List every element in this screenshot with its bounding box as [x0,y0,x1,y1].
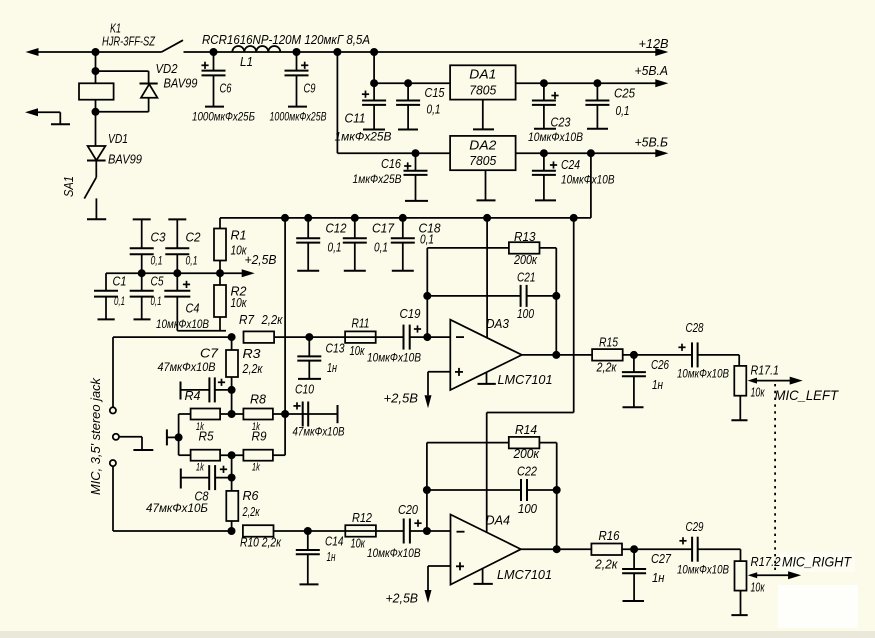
svg-text:1мкФх25В: 1мкФх25В [353,172,402,186]
svg-text:HJR-3FF-SZ: HJR-3FF-SZ [102,35,155,49]
svg-text:K1: K1 [110,22,121,36]
svg-text:DA3: DA3 [486,317,509,331]
svg-text:7805: 7805 [469,153,497,168]
svg-text:100: 100 [517,307,534,321]
svg-text:C25: C25 [614,87,635,101]
svg-text:1н: 1н [652,571,665,585]
svg-text:MIC_LEFT: MIC_LEFT [775,387,840,403]
svg-text:0,1: 0,1 [151,294,162,308]
svg-text:2,2к: 2,2к [596,361,618,375]
svg-text:1н: 1н [327,550,336,564]
svg-text:1k: 1k [196,462,204,474]
svg-text:100: 100 [518,502,537,516]
svg-text:C7: C7 [200,347,219,361]
svg-text:C15: C15 [425,86,445,100]
svg-text:10мкФх10В: 10мкФх10В [367,546,421,560]
svg-text:R11: R11 [352,317,370,331]
svg-text:C6: C6 [220,82,232,96]
svg-text:C23: C23 [551,116,571,130]
svg-text:10к: 10к [751,581,766,595]
svg-text:R17.2: R17.2 [751,555,781,569]
svg-text:1000мкФх25Б: 1000мкФх25Б [192,110,255,124]
svg-text:R1: R1 [231,229,247,243]
svg-text:200к: 200к [513,447,540,461]
svg-text:R12: R12 [352,511,372,525]
svg-text:C20: C20 [398,503,418,517]
svg-text:+12В: +12В [639,36,669,51]
svg-text:R4: R4 [185,389,201,403]
svg-text:47мкФх10В: 47мкФх10В [293,425,345,439]
svg-text:BAV99: BAV99 [108,153,142,167]
svg-text:10к: 10к [751,386,766,400]
svg-text:C12: C12 [326,222,347,236]
svg-text:C1: C1 [113,275,127,289]
svg-text:C11: C11 [345,112,366,126]
svg-text:0,1: 0,1 [374,241,388,255]
svg-text:10мкФх10В: 10мкФх10В [367,351,421,365]
svg-text:R8: R8 [250,393,266,407]
svg-text:R13: R13 [514,230,536,244]
svg-text:C21: C21 [517,271,536,285]
svg-text:R17.1: R17.1 [751,364,780,378]
svg-text:+2,5В: +2,5В [245,252,277,267]
svg-text:10мкФх10В: 10мкФх10В [156,317,209,331]
svg-text:VD2: VD2 [156,62,178,76]
svg-text:C9: C9 [304,82,316,96]
svg-text:SA1: SA1 [62,176,76,197]
svg-text:LMC7101: LMC7101 [498,372,553,387]
svg-text:DA4: DA4 [486,514,511,528]
svg-text:1000мкФх25В: 1000мкФх25В [270,110,327,124]
svg-text:C4: C4 [186,302,200,316]
svg-text:47мкФх10Б: 47мкФх10Б [146,501,208,515]
svg-text:10мкФх10В: 10мкФх10В [677,563,729,577]
svg-text:0,1: 0,1 [186,254,198,268]
svg-text:C26: C26 [651,358,669,372]
svg-text:R7: R7 [239,313,255,327]
svg-text:1k: 1k [252,462,260,474]
svg-text:DA1: DA1 [469,67,496,82]
svg-text:C14: C14 [325,535,344,549]
svg-text:DA2: DA2 [469,138,497,153]
svg-text:+5В.А: +5В.А [635,63,669,78]
svg-text:0,1: 0,1 [151,254,163,268]
svg-text:2,2к: 2,2к [242,505,261,519]
svg-text:R16: R16 [599,529,620,543]
svg-text:C19: C19 [400,307,421,321]
svg-text:C29: C29 [686,520,704,534]
svg-text:10мкФх10В: 10мкФх10В [677,367,729,381]
svg-text:2,2к: 2,2к [594,558,619,572]
svg-text:R5: R5 [199,430,214,444]
svg-text:C13: C13 [326,342,345,356]
svg-text:0,1: 0,1 [420,233,434,247]
svg-text:C24: C24 [561,158,580,172]
svg-text:200к: 200к [513,253,538,267]
svg-text:0,1: 0,1 [616,104,630,118]
svg-text:MIC_RIGHT: MIC_RIGHT [782,554,852,570]
svg-text:2,2к: 2,2к [261,313,284,327]
svg-text:C22: C22 [517,465,537,479]
svg-text:MIC, 3,5' stereo jack: MIC, 3,5' stereo jack [89,377,103,495]
svg-text:10мкФх10В: 10мкФх10В [528,130,583,144]
svg-text:R9: R9 [252,430,267,444]
svg-text:0,1: 0,1 [427,103,441,117]
svg-text:10мкФх10В: 10мкФх10В [561,173,615,187]
svg-text:1н: 1н [652,378,663,392]
svg-text:C28: C28 [686,321,704,335]
svg-text:C5: C5 [151,275,164,289]
svg-text:+5В.Б: +5В.Б [635,135,669,150]
svg-text:R3: R3 [243,347,261,361]
svg-text:R6: R6 [243,489,259,503]
svg-text:47мкФх10В: 47мкФх10В [158,360,216,374]
svg-text:C27: C27 [651,552,672,566]
svg-text:R15: R15 [599,336,618,350]
svg-text:2,2к: 2,2к [242,362,264,376]
svg-text:LMC7101: LMC7101 [497,567,552,582]
svg-text:C3: C3 [151,231,166,245]
svg-text:10к: 10к [231,296,248,310]
svg-text:VD1: VD1 [108,132,128,146]
svg-text:C10: C10 [295,383,314,397]
svg-text:1мкФх25В: 1мкФх25В [335,130,392,144]
svg-text:0,1: 0,1 [114,294,125,308]
svg-text:RCR1616NP-120M 120мкГ 8,5А: RCR1616NP-120M 120мкГ 8,5А [202,32,370,47]
svg-text:1н: 1н [327,361,337,375]
svg-text:R14: R14 [515,423,537,437]
svg-text:C16: C16 [381,157,401,171]
svg-text:C17: C17 [372,222,395,236]
svg-text:10к: 10к [351,537,366,551]
svg-text:R10 2,2к: R10 2,2к [240,536,282,550]
svg-text:+2,5В: +2,5В [384,391,419,406]
svg-text:L1: L1 [240,55,253,69]
svg-text:10к: 10к [350,344,366,358]
svg-text:+2,5В: +2,5В [386,591,419,606]
svg-text:0,1: 0,1 [328,241,342,255]
svg-text:7805: 7805 [469,83,497,98]
svg-text:C2: C2 [186,231,201,245]
svg-text:BAV99: BAV99 [164,77,198,91]
